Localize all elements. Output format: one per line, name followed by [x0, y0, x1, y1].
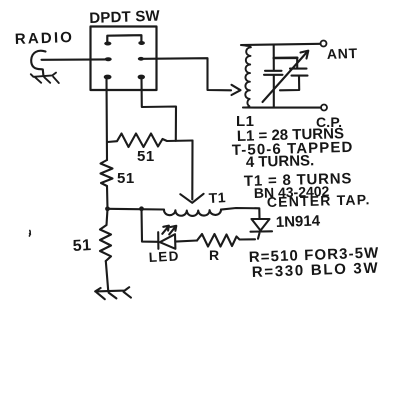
svg-text:ANT: ANT	[327, 45, 359, 62]
capacitor C1 top lead	[273, 45, 275, 70]
bottom rail L1 to C.P.	[243, 106, 321, 108]
wire switch to L1 tap	[144, 58, 231, 90]
D1 cathode lead	[258, 233, 260, 239]
capacitor C2 top lead	[296, 58, 298, 68]
wire radio jack to switch pole	[42, 58, 109, 60]
svg-text:T1: T1	[208, 189, 226, 206]
stray ink speck	[29, 231, 30, 237]
middle-left contact	[105, 57, 112, 61]
arrowhead at L1 tap	[232, 85, 241, 95]
bottom-left contact	[104, 75, 112, 80]
middle-right contact	[138, 57, 144, 61]
svg-text:1N914: 1N914	[276, 212, 321, 231]
capacitor C1 plates	[264, 71, 283, 75]
chassis ground bottom	[95, 287, 131, 299]
LED light arrows	[162, 226, 169, 234]
radio jack J1	[31, 51, 45, 76]
junction node B (LED branch)	[139, 206, 144, 211]
branch wire to C2	[274, 56, 297, 59]
capacitor C2 plates	[290, 69, 308, 76]
svg-text:51: 51	[72, 237, 92, 255]
left bus wire to ground	[106, 261, 108, 291]
svg-text:CENTER TAP.: CENTER TAP.	[267, 191, 371, 210]
top-right contact	[138, 41, 145, 45]
LED D2 cathode bar	[157, 232, 159, 249]
svg-text:51: 51	[137, 148, 155, 165]
jumper between top contacts	[107, 35, 141, 42]
capacitor C1 bottom lead	[273, 76, 275, 108]
wire node B down to LED	[142, 209, 158, 242]
LED D2 triangle	[160, 234, 176, 249]
wire R1 to T1 tap	[191, 141, 193, 200]
junction node A	[105, 206, 110, 211]
terminal C.P.	[321, 105, 327, 111]
variable capacitor arrowhead	[301, 51, 309, 59]
DPDT switch S1 body	[91, 27, 157, 91]
wire bottom-right pole down and over	[142, 78, 177, 141]
resistor R2 51 vertical upper	[101, 160, 113, 186]
resistor R1 51 horizontal	[108, 134, 193, 148]
wire node A to T1	[108, 208, 165, 211]
diode D1 1N914	[252, 219, 270, 231]
terminal ANT	[321, 41, 327, 47]
top-left contact	[104, 42, 111, 46]
transformer T1 winding	[164, 210, 221, 216]
svg-text:51: 51	[117, 170, 135, 187]
wire LED to R	[175, 241, 197, 242]
svg-text:R=330 BLO 3W: R=330 BLO 3W	[252, 260, 380, 281]
svg-text:4 TURNS.: 4 TURNS.	[246, 152, 315, 171]
capacitor C2 bottom lead	[280, 76, 299, 90]
resistor R	[197, 234, 255, 247]
left bus wire R2 to node A	[106, 186, 109, 209]
top rail L1 to ANT	[241, 44, 321, 46]
chassis ground at radio jack	[31, 73, 59, 83]
wire T1 to diode anode	[221, 208, 260, 219]
svg-text:DPDT SW: DPDT SW	[89, 8, 161, 27]
bottom-right contact	[138, 75, 145, 80]
inductor L1 winding	[243, 46, 251, 108]
left bus wire from bottom-left pole	[105, 79, 108, 161]
variable capacitor arrow	[263, 52, 308, 103]
svg-text:RADIO: RADIO	[15, 29, 75, 48]
arrowhead at T1 tap	[180, 194, 203, 203]
svg-text:LED: LED	[148, 248, 180, 265]
D1 cathode bar	[251, 230, 273, 232]
resistor R3 51 vertical lower	[100, 209, 111, 261]
svg-text:R: R	[209, 247, 220, 263]
